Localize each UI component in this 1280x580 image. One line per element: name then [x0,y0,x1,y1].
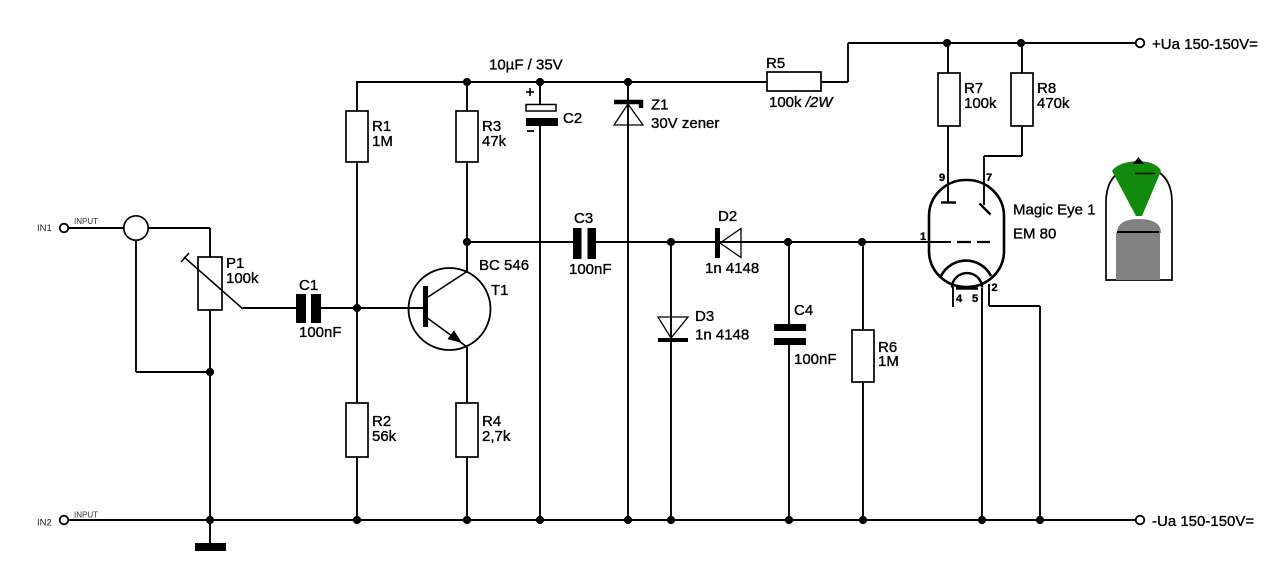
junction dots mid rail [463,78,632,86]
svg-text:D2: D2 [718,208,737,225]
svg-text:100nF: 100nF [794,351,837,368]
resistor R2 [346,403,397,457]
wire C4 column [788,242,790,520]
label 10uF / 35V [489,57,563,74]
wire tube pin 4 stub [952,287,954,307]
wire emitter to R4 [466,347,468,520]
svg-text:9: 9 [939,172,945,184]
svg-text:IN2: IN2 [37,518,52,529]
wire Z1 column [627,82,629,520]
svg-text:T1: T1 [491,282,509,299]
capacitor C4 [774,302,837,368]
wire R5 output to riser [821,81,848,83]
wire top +Ua rail [848,42,1137,44]
svg-text:C2: C2 [563,110,582,127]
svg-text:30V zener: 30V zener [651,115,719,132]
transistor T1 BC 546 [409,257,530,350]
resistor R1 [346,111,393,162]
wire ground drop [209,520,211,543]
tube pin number 2 [992,282,998,294]
terminal +Ua [1136,36,1258,53]
tube pin number 4 [956,293,963,305]
svg-text:10µF / 35V: 10µF / 35V [489,57,563,74]
wire riser from R5 to top rail [847,43,849,82]
svg-text:D3: D3 [695,308,714,325]
svg-text:Magic Eye 1: Magic Eye 1 [1013,202,1096,219]
wire bottom -Ua rail [64,519,1137,521]
wire C2 column [539,82,541,520]
wire signal line [467,241,951,243]
tube pin number 5 [972,293,978,305]
resistor R3 [456,111,507,162]
svg-text:R5: R5 [766,55,785,72]
svg-text:56k: 56k [372,428,397,445]
junction dot P1 bottom [206,368,214,376]
input circle [124,216,148,240]
terminal IN2 [37,511,98,529]
terminal -Ua [1136,513,1255,530]
ground [195,543,226,551]
svg-text:2,7k: 2,7k [482,428,511,445]
resistor R6 [852,330,899,382]
junction dots signal line [463,238,866,246]
svg-text:1: 1 [920,231,926,243]
resistor R8 [1011,73,1070,126]
svg-text:7: 7 [986,172,992,184]
capacitor C2 electrolytic [526,88,582,131]
svg-text:1n 4148: 1n 4148 [705,260,759,277]
diode D2 [705,208,759,277]
svg-text:C3: C3 [574,210,593,227]
svg-text:5: 5 [972,293,978,305]
wire R7 column to tube pin 9 [947,43,949,202]
terminal IN1 [37,217,98,234]
magic eye icon [1106,157,1172,280]
resistor R7 [938,73,997,126]
svg-text:100k: 100k [964,95,997,112]
junction dots top rail [943,39,1025,47]
svg-text:INPUT: INPUT [74,511,98,520]
tube pin number 7 [986,172,992,184]
magic eye tube EM 80 [929,180,1096,289]
wire D3 column [670,242,672,520]
svg-text:100nF: 100nF [299,324,342,341]
wire R6 column [862,242,864,520]
svg-text:Z1: Z1 [651,97,669,114]
tube pin number 1 [920,231,926,243]
svg-text:2: 2 [992,282,998,294]
junction dot base node [353,304,361,312]
wire mid supply rail [356,81,767,83]
svg-text:47k: 47k [482,133,507,150]
potentiometer P1 [181,253,259,310]
wire C1 to base [321,307,423,309]
svg-text:EM 80: EM 80 [1013,226,1056,243]
capacitor C3 [569,210,612,278]
svg-text:100k /2W: 100k /2W [769,94,834,111]
wire wiper to C1 [243,307,296,309]
svg-text:BC 546: BC 546 [479,257,529,274]
resistor R4 [456,403,511,457]
wire tube pin 2 to rail [989,284,1040,520]
zener diode Z1 [614,97,719,133]
junction dots bottom rail [206,516,1044,524]
svg-text:INPUT: INPUT [74,217,98,226]
wire R3 column / collector [466,82,468,272]
tube pin number 9 [939,172,945,184]
svg-text:-Ua 150-150V=: -Ua 150-150V= [1152,513,1254,530]
svg-text:1n 4148: 1n 4148 [695,327,749,344]
svg-text:IN1: IN1 [37,223,52,234]
wire input circle drop [136,240,210,372]
svg-text:C1: C1 [299,277,318,294]
capacitor C1 [296,277,342,341]
svg-text:4: 4 [956,293,963,305]
svg-text:+Ua 150-150V=: +Ua 150-150V= [1152,36,1258,53]
wire tube pin 5 to rail [981,288,983,520]
svg-text:1M: 1M [372,133,393,150]
svg-text:100nF: 100nF [569,261,612,278]
wire R1 column [356,82,358,520]
svg-text:C4: C4 [794,302,813,319]
wire P1 bottom column [209,310,211,520]
svg-text:100k: 100k [226,270,259,287]
wire input IN1 [68,228,210,257]
diode D3 [658,308,749,344]
wire R8 column to tube pin 7 [984,43,1022,205]
svg-text:470k: 470k [1037,95,1070,112]
svg-text:1M: 1M [878,353,899,370]
resistor R5 [766,55,834,111]
